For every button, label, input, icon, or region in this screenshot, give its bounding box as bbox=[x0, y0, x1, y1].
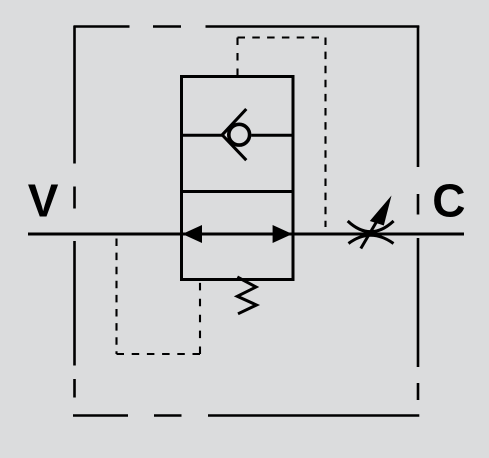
svg-text:V: V bbox=[28, 175, 59, 227]
svg-text:C: C bbox=[432, 175, 465, 227]
